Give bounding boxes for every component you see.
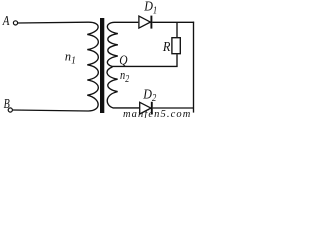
diode D1 cathode bar: [150, 16, 152, 29]
terminal A circle: [13, 21, 17, 25]
diode D2 triangle: [140, 102, 151, 114]
svg-text:n1: n1: [65, 49, 76, 66]
secondary upper winding n2 (wire from D1 into 4 loops to center tap): [107, 22, 138, 66]
svg-text:D2: D2: [142, 86, 156, 105]
secondary lower winding n2 (center tap into 3 loops to wire toward D2): [107, 67, 139, 108]
svg-text:n2: n2: [120, 68, 130, 84]
wire D1 to top-right corner: [152, 21, 194, 23]
resistor R body: [172, 38, 180, 54]
transformer core bar: [100, 18, 104, 113]
resistor R top stub: [176, 22, 178, 37]
wire A to primary coil + primary winding n1 (6 loops) + wire to B: [13, 22, 99, 111]
svg-text:manfen5.com: manfen5.com: [123, 109, 191, 118]
svg-text:D1: D1: [143, 0, 157, 17]
right edge wire (D1/D2 cathode rail): [193, 22, 195, 113]
svg-text:R: R: [162, 38, 170, 54]
terminal B circle: [8, 108, 12, 112]
center tap wire Q to R bottom: [112, 54, 177, 66]
svg-text:A: A: [2, 13, 10, 29]
wire D2 to bottom-right corner: [153, 107, 194, 109]
diode D2 cathode bar: [151, 102, 153, 115]
svg-text:Q: Q: [119, 53, 127, 68]
diode D1 triangle: [139, 16, 151, 28]
